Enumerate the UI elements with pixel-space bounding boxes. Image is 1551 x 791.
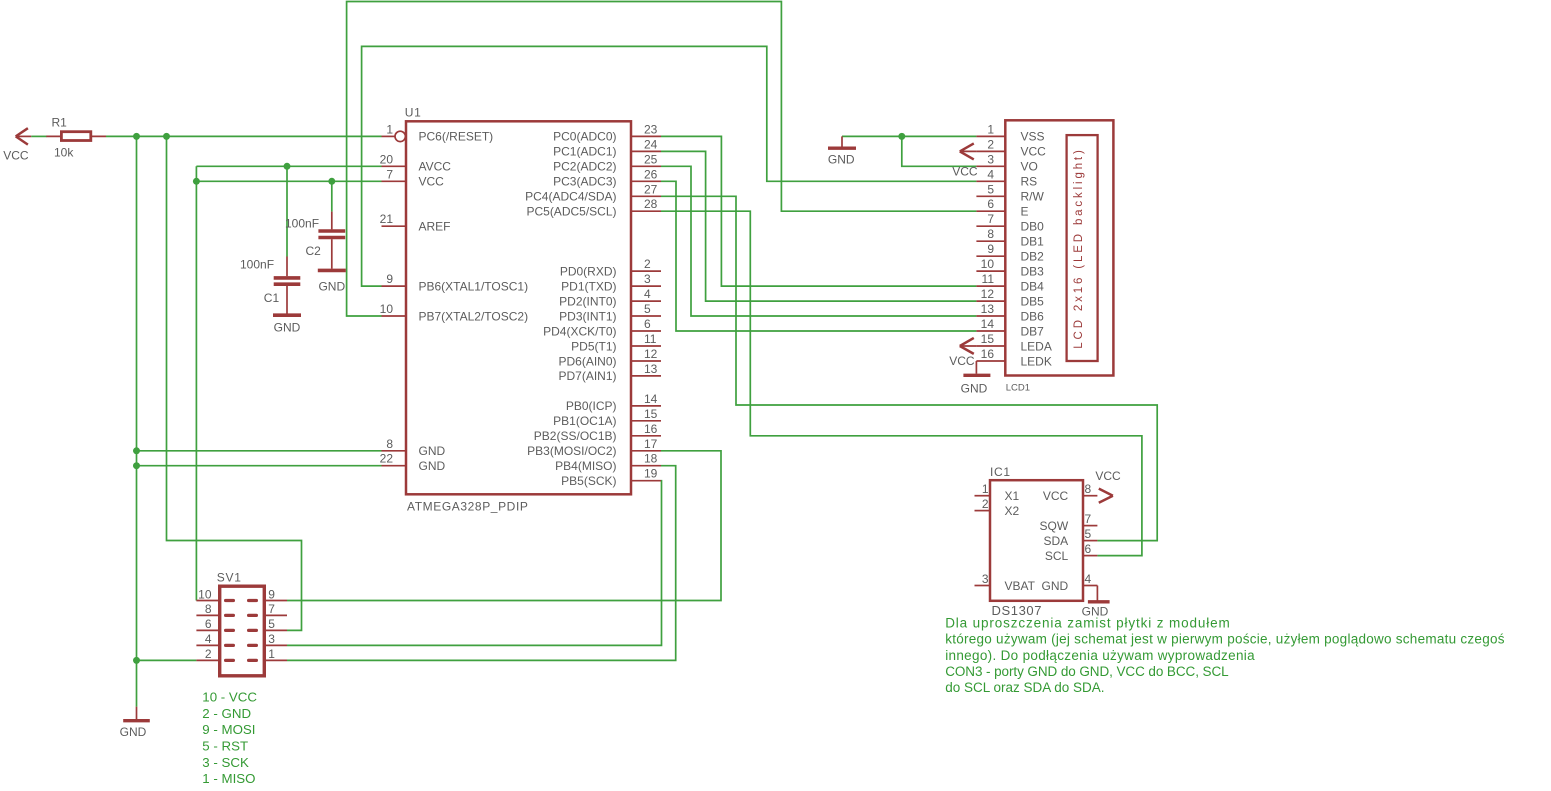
U1 pin 10 PB7(XTAL2/TOSC2): [380, 302, 528, 323]
svg-text:9 - MOSI: 9 - MOSI: [202, 722, 255, 737]
svg-text:PD3(INT1): PD3(INT1): [559, 309, 616, 323]
wire R1 to U1 pin1 (RESET net): [106, 135, 382, 137]
svg-text:GND: GND: [961, 382, 988, 396]
IC1 pin 2 X2: [975, 497, 1020, 518]
svg-text:PD0(RXD): PD0(RXD): [560, 264, 617, 278]
svg-text:6: 6: [1085, 542, 1092, 556]
svg-text:6: 6: [205, 617, 212, 631]
junction dot 9: [898, 133, 905, 140]
LCD1 pin 7 DB0: [976, 212, 1044, 233]
svg-text:GND: GND: [318, 280, 345, 294]
svg-text:2: 2: [644, 257, 651, 271]
svg-text:VCC: VCC: [952, 165, 978, 179]
wire PB3 MOSI to SV1 pin9: [287, 451, 721, 601]
power VCC arrow at LCD pin 15: [949, 338, 976, 368]
wire LCD VSS to GND: [842, 135, 976, 137]
svg-text:3 - SCK: 3 - SCK: [202, 755, 249, 770]
svg-text:4: 4: [1085, 572, 1092, 586]
wire PB5 SCK to SV1 pin3: [287, 481, 662, 646]
svg-text:14: 14: [644, 392, 658, 406]
svg-text:LCD1: LCD1: [1006, 383, 1030, 394]
svg-text:GND: GND: [419, 444, 446, 458]
svg-text:DB0: DB0: [1021, 220, 1045, 234]
ground bottom left: [120, 707, 150, 739]
SV1 pin 7: [249, 602, 287, 616]
LCD1 pin 14 DB7: [976, 317, 1044, 338]
power VCC arrow at LCD pin 2: [952, 143, 978, 178]
svg-text:PC0(ADC0): PC0(ADC0): [553, 130, 616, 144]
U1 pin 8 GND: [382, 437, 446, 458]
svg-text:7: 7: [1085, 512, 1092, 526]
svg-text:18: 18: [644, 452, 658, 466]
wire PB7 to LCD E (outer loop): [347, 2, 977, 317]
svg-text:15: 15: [981, 332, 995, 346]
U1 pin 14 PB0(ICP): [566, 392, 661, 413]
ground at LCD VSS: [828, 136, 856, 166]
svg-text:5: 5: [987, 182, 994, 196]
svg-text:10: 10: [198, 587, 212, 601]
junction dot 3: [193, 178, 200, 185]
junction dot 8: [133, 657, 140, 664]
wire GND to SV1 pin2: [137, 659, 197, 661]
wire RESET to SV1 pin5: [167, 136, 302, 630]
svg-text:16: 16: [644, 422, 658, 436]
capacitor C1 100nF: [240, 257, 300, 314]
svg-text:DB6: DB6: [1021, 309, 1045, 323]
svg-text:DB3: DB3: [1021, 264, 1045, 278]
IC1 pin 3 VBAT: [975, 572, 1036, 593]
power VCC arrow at IC1 pin 8: [1095, 469, 1121, 503]
svg-text:100nF: 100nF: [285, 217, 319, 231]
svg-text:R/W: R/W: [1021, 190, 1045, 204]
svg-text:6: 6: [987, 197, 994, 211]
SV1 pin 9: [249, 587, 287, 601]
svg-text:28: 28: [644, 197, 658, 211]
svg-text:C2: C2: [306, 244, 322, 258]
wire LCD VO branch: [902, 136, 977, 166]
svg-text:VCC: VCC: [1095, 469, 1121, 483]
svg-text:10: 10: [380, 302, 394, 316]
svg-text:do SCL oraz SDA do SDA.: do SCL oraz SDA do SDA.: [945, 680, 1104, 695]
svg-text:PC4(ADC4/SDA): PC4(ADC4/SDA): [525, 190, 616, 204]
svg-text:26: 26: [644, 167, 658, 181]
ground at IC1 pin 4: [1082, 586, 1110, 619]
LCD1 pin 1 VSS: [976, 122, 1044, 143]
SV1 pin 8: [196, 602, 233, 616]
svg-text:PC3(ADC3): PC3(ADC3): [553, 175, 616, 189]
svg-text:AVCC: AVCC: [419, 160, 452, 174]
svg-text:GND: GND: [120, 725, 147, 739]
svg-text:5: 5: [1085, 527, 1092, 541]
wire AVCC to C1: [286, 166, 288, 256]
svg-text:SDA: SDA: [1044, 534, 1069, 548]
svg-text:DB5: DB5: [1021, 294, 1045, 308]
svg-text:PB2(SS/OC1B): PB2(SS/OC1B): [534, 429, 617, 443]
junction dot 4: [284, 163, 291, 170]
svg-text:R1: R1: [52, 116, 68, 130]
LCD1 pin 8 DB1: [976, 227, 1044, 248]
LCD1 pin 5 R/W: [976, 182, 1044, 203]
U1 pin 6 PD4(XCK/T0): [543, 317, 661, 338]
LCD1 pin 11 DB4: [976, 272, 1044, 293]
LCD1 module box: [1005, 120, 1113, 375]
wire VCC vertical to SV1 pin10: [195, 166, 197, 600]
LCD1 pin 15 LEDA: [976, 332, 1051, 353]
power VCC (left, net to R1): [3, 128, 31, 162]
svg-text:RS: RS: [1021, 175, 1038, 189]
svg-text:12: 12: [981, 287, 995, 301]
svg-text:6: 6: [644, 317, 651, 331]
svg-text:PD2(INT0): PD2(INT0): [559, 294, 616, 308]
U1 pin 20 AVCC: [380, 152, 452, 173]
U1 pin 3 PD1(TXD): [561, 272, 661, 293]
IC1 pin 4 GND: [1042, 572, 1098, 593]
svg-text:8: 8: [1085, 482, 1092, 496]
ground below C1: [273, 315, 301, 334]
svg-text:DB7: DB7: [1021, 324, 1045, 338]
svg-text:GND: GND: [419, 459, 446, 473]
junction dot 6: [133, 447, 140, 454]
SV1 pin 1: [249, 647, 287, 661]
svg-text:SQW: SQW: [1040, 519, 1069, 533]
svg-text:8: 8: [987, 227, 994, 241]
svg-text:VSS: VSS: [1021, 130, 1045, 144]
svg-text:3: 3: [987, 152, 994, 166]
SV1 pin 10: [196, 587, 233, 601]
svg-text:7: 7: [386, 167, 393, 181]
svg-text:U1: U1: [405, 106, 422, 120]
svg-text:13: 13: [644, 362, 658, 376]
wire AVCC row: [196, 165, 381, 167]
svg-text:CON3 - porty GND do GND, VCC d: CON3 - porty GND do GND, VCC do BCC, SCL: [945, 664, 1229, 679]
svg-text:PD7(AIN1): PD7(AIN1): [558, 369, 616, 383]
U1 pin 16 PB2(SS/OC1B): [534, 422, 661, 443]
LCD1 pin 2 VCC: [976, 137, 1046, 158]
svg-text:DB2: DB2: [1021, 250, 1045, 264]
svg-text:9: 9: [386, 272, 393, 286]
svg-text:3: 3: [644, 272, 651, 286]
svg-text:8: 8: [386, 437, 393, 451]
svg-text:ATMEGA328P_PDIP: ATMEGA328P_PDIP: [407, 500, 529, 514]
wire GND vertical bus x=136: [136, 136, 138, 706]
svg-text:24: 24: [644, 137, 658, 151]
wire PC4 SDA to IC1: [661, 196, 1157, 540]
svg-text:14: 14: [981, 317, 995, 331]
svg-text:2 - GND: 2 - GND: [202, 706, 251, 721]
U1 pin 4 PD2(INT0): [559, 287, 661, 308]
svg-text:5: 5: [644, 302, 651, 316]
SV1 pin 5: [249, 617, 287, 631]
svg-text:25: 25: [644, 152, 658, 166]
U1 pin 17 PB3(MOSI/OC2): [527, 437, 661, 458]
svg-text:PB1(OC1A): PB1(OC1A): [553, 414, 616, 428]
ground below C2: [318, 270, 346, 293]
wire PC2 to LCD DB6: [661, 166, 976, 316]
svg-text:VBAT: VBAT: [1005, 579, 1036, 593]
svg-text:4: 4: [987, 167, 994, 181]
wire VCC arrow to R1: [31, 135, 46, 137]
IC1 pin 1 X1: [975, 482, 1020, 503]
connector SV1 box: [220, 586, 265, 676]
LCD1 pin 6 E: [976, 197, 1028, 218]
DS1307 note (green text): [945, 616, 1505, 695]
ground at LCD LEDK: [961, 361, 991, 396]
svg-text:20: 20: [380, 152, 394, 166]
svg-text:VCC: VCC: [3, 148, 29, 162]
SV1 pinout note (green text): [202, 690, 257, 787]
svg-text:VCC: VCC: [1043, 489, 1069, 503]
resistor R1 10k: [46, 116, 106, 160]
svg-text:X1: X1: [1005, 489, 1020, 503]
svg-text:PB3(MOSI/OC2): PB3(MOSI/OC2): [527, 444, 616, 458]
U1 pin 15 PB1(OC1A): [553, 407, 661, 428]
svg-text:1: 1: [987, 122, 994, 136]
U1 pin 19 PB5(SCK): [561, 467, 661, 488]
svg-text:PB4(MISO): PB4(MISO): [555, 459, 616, 473]
wire VCC row: [196, 180, 381, 182]
wire PC5 SCL to IC1: [661, 211, 1142, 555]
svg-text:5 - RST: 5 - RST: [202, 739, 248, 754]
svg-text:7: 7: [987, 212, 994, 226]
IC1 pin 7 SQW: [1040, 512, 1098, 533]
svg-text:21: 21: [380, 212, 394, 226]
U1 pin 18 PB4(MISO): [555, 452, 661, 473]
svg-text:VCC: VCC: [419, 175, 445, 189]
svg-text:16: 16: [981, 347, 995, 361]
junction dot 7: [133, 462, 140, 469]
junction dot 1: [133, 133, 140, 140]
svg-text:PC1(ADC1): PC1(ADC1): [553, 145, 616, 159]
U1 pin 1 PC6(/RESET): [382, 122, 494, 143]
U1 pin 7 VCC: [382, 167, 445, 188]
svg-text:4: 4: [205, 632, 212, 646]
U1 pin 11 PD5(T1): [571, 332, 661, 353]
svg-text:PB5(SCK): PB5(SCK): [561, 474, 616, 488]
svg-text:PD4(XCK/T0): PD4(XCK/T0): [543, 324, 616, 338]
IC1 pin 6 SCL: [1045, 542, 1098, 563]
svg-text:12: 12: [644, 347, 658, 361]
svg-text:C1: C1: [264, 291, 280, 305]
svg-text:PB0(ICP): PB0(ICP): [566, 399, 617, 413]
U1 pin 9 PB6(XTAL1/TOSC1): [382, 272, 529, 293]
svg-text:innego). Do podłączenia używam: innego). Do podłączenia używam wyprowadz…: [945, 648, 1255, 663]
LCD1 pin 4 RS: [976, 167, 1037, 188]
wire PC0 to LCD DB4: [661, 136, 976, 286]
LCD1 pin 12 DB5: [976, 287, 1044, 308]
svg-text:23: 23: [644, 122, 658, 136]
svg-text:11: 11: [982, 272, 995, 286]
U1 pin 28 PC5(ADC5/SCL): [526, 197, 661, 218]
svg-text:PB6(XTAL1/TOSC1): PB6(XTAL1/TOSC1): [419, 279, 529, 293]
svg-text:PC2(ADC2): PC2(ADC2): [553, 160, 616, 174]
U1 pin 23 PC0(ADC0): [553, 122, 661, 143]
junction dot 5: [328, 178, 335, 185]
LCD1 pin 10 DB3: [976, 257, 1044, 278]
svg-text:LEDK: LEDK: [1021, 354, 1052, 368]
IC1 DS1307 box: [990, 480, 1083, 601]
svg-text:DB1: DB1: [1021, 235, 1045, 249]
svg-text:1 - MISO: 1 - MISO: [202, 771, 255, 786]
IC1 pin 8 VCC: [1043, 482, 1098, 503]
wire GND to U1 pin8: [137, 450, 382, 452]
U1 pin 26 PC3(ADC3): [553, 167, 661, 188]
svg-text:15: 15: [644, 407, 658, 421]
svg-text:3: 3: [982, 572, 989, 586]
svg-text:9: 9: [268, 587, 275, 601]
LCD1 pin 13 DB6: [976, 302, 1044, 323]
svg-text:9: 9: [987, 242, 994, 256]
svg-text:10k: 10k: [54, 146, 74, 160]
SV1 pin 6: [196, 617, 233, 631]
wire PC1 to LCD DB5: [661, 151, 976, 301]
svg-text:DB4: DB4: [1021, 279, 1045, 293]
svg-text:11: 11: [644, 332, 657, 346]
svg-text:PB7(XTAL2/TOSC2): PB7(XTAL2/TOSC2): [419, 309, 529, 323]
wire VCC to C2: [331, 181, 333, 211]
svg-text:Dla uproszczenia zamist płytki: Dla uproszczenia zamist płytki z modułem: [945, 616, 1230, 631]
svg-text:27: 27: [644, 182, 658, 196]
SV1 pin 2: [196, 647, 233, 661]
svg-text:1: 1: [386, 122, 393, 136]
op-amp/IC U1 ATMEGA328P_PDIP box: [406, 121, 631, 494]
U1 pin 24 PC1(ADC1): [553, 137, 661, 158]
svg-text:E: E: [1021, 205, 1029, 219]
wire PB4 MISO to SV1 pin1: [287, 466, 676, 661]
svg-text:PC5(ADC5/SCL): PC5(ADC5/SCL): [526, 205, 616, 219]
U1 pin 13 PD7(AIN1): [558, 362, 661, 383]
U1 pin 25 PC2(ADC2): [553, 152, 661, 173]
svg-text:13: 13: [981, 302, 995, 316]
svg-text:4: 4: [644, 287, 651, 301]
svg-text:X2: X2: [1005, 504, 1020, 518]
svg-text:19: 19: [644, 467, 658, 481]
svg-text:5: 5: [268, 617, 275, 631]
LCD1 pin 9 DB2: [976, 242, 1044, 263]
U1 pin 21 AREF: [380, 212, 451, 233]
LCD1 pin 3 VO: [976, 152, 1037, 173]
svg-text:8: 8: [205, 602, 212, 616]
svg-text:1: 1: [982, 482, 989, 496]
U1 pin 22 GND: [380, 452, 446, 473]
svg-text:10 - VCC: 10 - VCC: [202, 690, 257, 705]
svg-text:2: 2: [982, 497, 989, 511]
wire PC3 to LCD DB7: [661, 181, 976, 331]
U1 pin 5 PD3(INT1): [559, 302, 661, 323]
svg-text:PC6(/RESET): PC6(/RESET): [419, 130, 494, 144]
svg-text:GND: GND: [274, 321, 301, 335]
svg-text:2: 2: [205, 647, 212, 661]
svg-text:LEDA: LEDA: [1021, 339, 1052, 353]
svg-text:którego używam (jej schemat je: którego używam (jej schemat jest w pierw…: [945, 632, 1505, 647]
wire PB6 to LCD RS (inner loop): [362, 46, 977, 286]
svg-text:22: 22: [380, 452, 394, 466]
svg-text:100nF: 100nF: [240, 258, 274, 272]
svg-text:PD1(TXD): PD1(TXD): [561, 279, 616, 293]
svg-text:7: 7: [268, 602, 275, 616]
capacitor C2 100nF: [285, 212, 345, 269]
IC1 pin 5 SDA: [1044, 527, 1098, 548]
U1 pin 2 PD0(RXD): [560, 257, 661, 278]
svg-text:PD5(T1): PD5(T1): [571, 339, 616, 353]
svg-text:VO: VO: [1021, 160, 1038, 174]
U1 pin 27 PC4(ADC4/SDA): [525, 182, 661, 203]
svg-text:VCC: VCC: [949, 354, 975, 368]
svg-text:VCC: VCC: [1021, 145, 1047, 159]
svg-text:IC1: IC1: [990, 465, 1011, 479]
LCD1 display inner rectangle: [1067, 135, 1098, 361]
svg-text:LCD 2x16 (LED backlight): LCD 2x16 (LED backlight): [1073, 147, 1085, 348]
svg-text:10: 10: [981, 257, 995, 271]
LCD1 pin 16 LEDK: [976, 347, 1051, 368]
svg-text:SCL: SCL: [1045, 549, 1069, 563]
svg-text:SV1: SV1: [217, 571, 242, 585]
SV1 pin 3: [249, 632, 287, 646]
svg-text:GND: GND: [828, 152, 855, 166]
svg-text:AREF: AREF: [419, 220, 451, 234]
svg-text:3: 3: [268, 632, 275, 646]
svg-text:GND: GND: [1042, 579, 1069, 593]
SV1 pin 4: [196, 632, 233, 646]
U1 pin 12 PD6(AIN0): [558, 347, 661, 368]
svg-text:17: 17: [644, 437, 658, 451]
svg-text:PD6(AIN0): PD6(AIN0): [558, 354, 616, 368]
wire GND to U1 pin22: [137, 465, 382, 467]
junction dot 2: [163, 133, 170, 140]
svg-text:1: 1: [268, 647, 275, 661]
svg-text:2: 2: [987, 137, 994, 151]
